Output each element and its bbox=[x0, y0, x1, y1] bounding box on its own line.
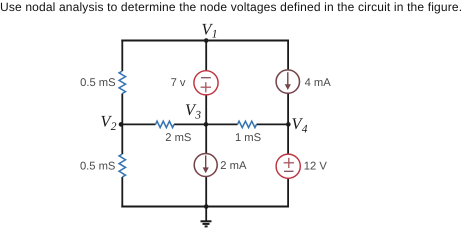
node V3 junction dot bbox=[204, 122, 209, 127]
svg-text:1 mS: 1 mS bbox=[235, 132, 261, 144]
svg-text:1: 1 bbox=[212, 29, 218, 41]
resistor 0.5 mS lower-left bbox=[80, 154, 126, 177]
node V1 junction dot bbox=[204, 38, 209, 43]
resistor 2 mS bbox=[156, 121, 192, 144]
wire left branch middle segment bbox=[121, 94, 123, 155]
svg-text:12 V: 12 V bbox=[304, 161, 328, 173]
svg-text:2 mS: 2 mS bbox=[165, 132, 191, 144]
voltage source 7 V bbox=[171, 71, 219, 95]
node label V2 bbox=[101, 113, 117, 133]
wire middle row V2 to 2mS bbox=[121, 123, 155, 125]
wire middle branch vertical bbox=[205, 40, 207, 208]
ground junction dot bbox=[204, 204, 209, 209]
resistor 1 mS bbox=[235, 121, 261, 144]
svg-text:4: 4 bbox=[302, 124, 308, 136]
ground bbox=[201, 207, 212, 227]
current source 4 mA bbox=[276, 70, 331, 93]
svg-text:0.5 mS: 0.5 mS bbox=[80, 160, 115, 172]
wire bottom (ground rail) bbox=[121, 206, 289, 208]
wire middle row 2mS to 1mS bbox=[174, 123, 238, 125]
wire left branch upper segment bbox=[121, 40, 123, 71]
voltage source 12 V bbox=[276, 154, 327, 178]
svg-text:0.5 mS: 0.5 mS bbox=[80, 77, 115, 89]
problem statement text bbox=[0, 0, 462, 14]
svg-text:2: 2 bbox=[111, 121, 117, 133]
svg-text:2 mA: 2 mA bbox=[220, 160, 247, 172]
node V4 junction dot bbox=[286, 122, 291, 127]
node label V3 bbox=[185, 101, 201, 122]
node label V4 bbox=[292, 115, 308, 136]
svg-text:3: 3 bbox=[194, 110, 201, 122]
resistor 0.5 mS upper-left bbox=[80, 71, 125, 94]
wire left branch lower segment bbox=[121, 177, 123, 207]
svg-text:Use nodal analysis to determin: Use nodal analysis to determine the node… bbox=[0, 0, 462, 14]
wire top (V1 rail) bbox=[121, 40, 289, 42]
node V2 junction dot bbox=[119, 122, 124, 127]
current source 2 mA bbox=[194, 154, 247, 177]
wire right branch vertical bbox=[287, 40, 289, 208]
node label V1 bbox=[202, 21, 218, 41]
wire middle row 1mS to V4 bbox=[257, 123, 289, 125]
svg-text:4 mA: 4 mA bbox=[305, 77, 332, 89]
svg-text:7 v: 7 v bbox=[171, 77, 186, 89]
